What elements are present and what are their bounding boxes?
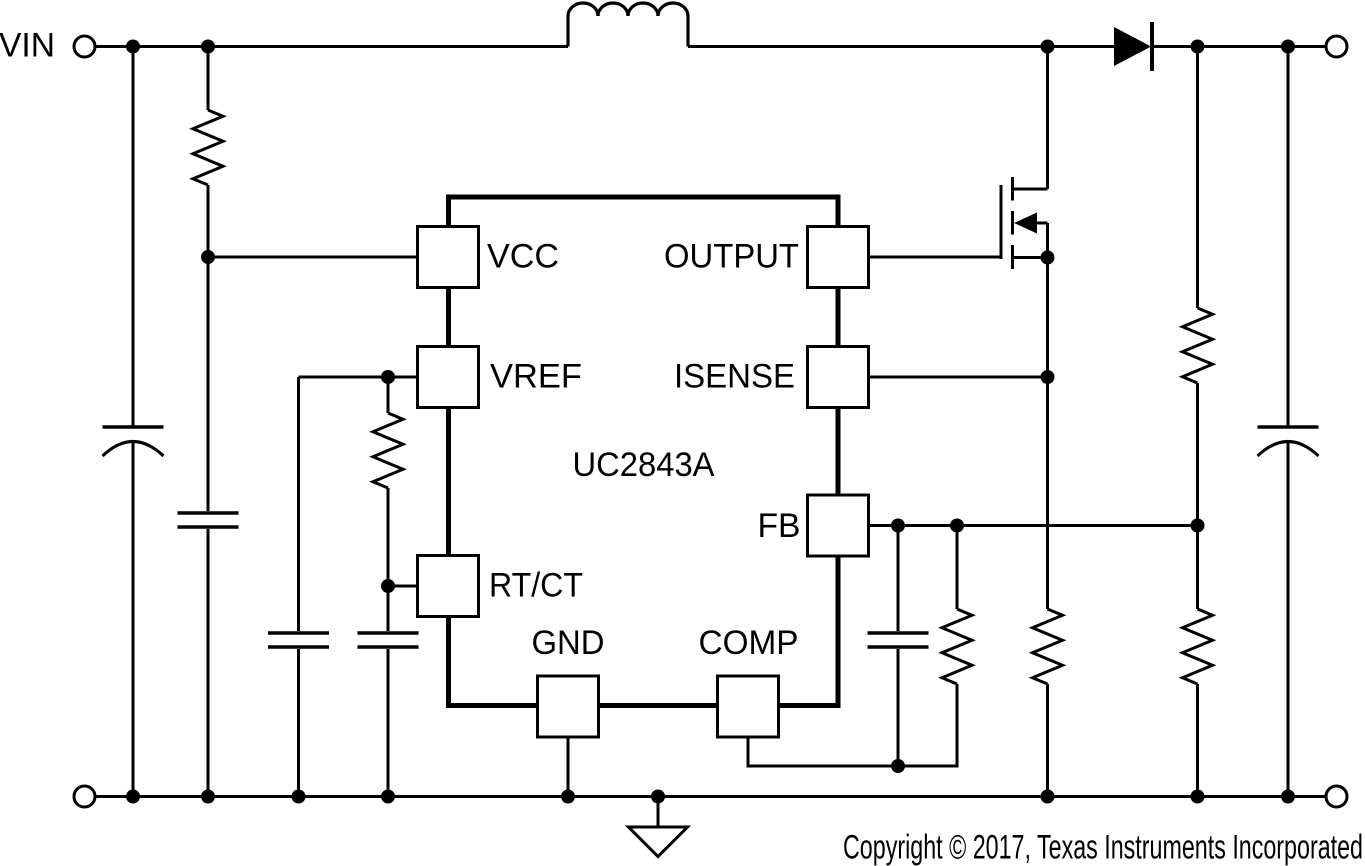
wire drain to top rail — [1046, 47, 1049, 190]
node dot FB divider — [1191, 519, 1205, 533]
transistor Q1 (N-MOSFET) — [1001, 177, 1048, 269]
pin box COMP — [718, 676, 779, 737]
svg-text:VCC: VCC — [487, 238, 559, 276]
pin box OUTPUT — [808, 227, 869, 288]
svg-text:OUTPUT: OUTPUT — [664, 238, 799, 276]
ground — [629, 790, 688, 857]
terminal VOUT — [1326, 36, 1347, 57]
wire source down to sense resistor — [1046, 258, 1049, 610]
capacitor comp — [868, 633, 929, 647]
node dot top rail drain — [1041, 40, 1055, 54]
wire FB to comp resistor — [956, 526, 959, 610]
node dot comp junction — [891, 759, 905, 773]
resistor sense — [1033, 609, 1063, 684]
wire VCC pin — [208, 256, 418, 259]
node dot VCC — [201, 250, 215, 264]
node dot rail x133 — [126, 790, 140, 804]
inductor L1 — [568, 3, 688, 47]
wire CT cap to ground rail — [387, 649, 390, 797]
wire FB node to lower divider resistor — [1196, 526, 1199, 610]
svg-text:COMP: COMP — [699, 624, 799, 662]
capacitor CIN (polarized) — [103, 427, 164, 456]
wire RT/CT node down to CT cap — [387, 586, 390, 631]
node dot source — [1041, 251, 1055, 265]
node dot rail x388 — [381, 790, 395, 804]
wire input cap bottom — [132, 442, 135, 797]
svg-text:UC2843A: UC2843A — [573, 446, 715, 484]
capacitor VCC bypass — [178, 513, 239, 527]
node dot RT/CT — [381, 579, 395, 593]
node dot rail x208 — [201, 790, 215, 804]
wire VREF pin — [299, 376, 418, 379]
wire upper divider to FB node — [1196, 383, 1199, 526]
wire bottom rail — [95, 795, 1326, 798]
capacitor COUT (polarized) — [1258, 427, 1319, 456]
wire top rail to upper divider resistor — [1196, 47, 1199, 309]
pin box FB — [808, 495, 869, 556]
diode D1 — [1114, 22, 1152, 71]
resistor divider upper — [1183, 308, 1213, 383]
pin box ISENSE — [808, 347, 869, 408]
wire VREF to RT resistor — [387, 377, 390, 413]
svg-text:VIN: VIN — [0, 27, 55, 65]
terminal VIN — [74, 36, 95, 57]
resistor divider lower — [1183, 609, 1213, 684]
wire resistor to VCC node — [207, 185, 210, 257]
node dot output cap rail — [1281, 790, 1295, 804]
wire FB to comp cap — [897, 526, 900, 632]
svg-text:ISENSE: ISENSE — [674, 358, 795, 396]
pin box VREF — [418, 347, 479, 408]
wire RT/CT pin — [388, 585, 418, 588]
svg-text:Copyright © 2017, Texas Instru: Copyright © 2017, Texas Instruments Inco… — [843, 829, 1363, 866]
wire VIN rail to bias resistor — [207, 47, 210, 111]
wire ISENSE pin — [869, 376, 1048, 379]
wire comp cap to comp junction — [897, 649, 900, 766]
resistor comp — [942, 609, 972, 684]
node dot top rail x208 — [201, 40, 215, 54]
wire lower divider to ground rail — [1196, 684, 1199, 797]
wire top rail inductor to diode — [688, 45, 1114, 48]
node dot top rail x133 — [126, 40, 140, 54]
svg-text:GND: GND — [532, 624, 605, 662]
wire output cap bottom — [1287, 442, 1290, 797]
pin box GND — [538, 676, 599, 737]
resistor R bias — [193, 110, 223, 185]
node dot divider rail — [1191, 790, 1205, 804]
terminal bottom-left — [74, 786, 95, 807]
node dot GND rail — [561, 790, 575, 804]
resistor RT — [373, 413, 403, 488]
node dot VREF — [381, 370, 395, 384]
node dot top rail output cap — [1281, 40, 1295, 54]
node dot rail x298 — [292, 790, 306, 804]
pin box RT/CT — [418, 556, 479, 617]
wire top rail diode to output terminal — [1152, 45, 1326, 48]
node dot FB cap — [891, 519, 905, 533]
svg-text:RT/CT: RT/CT — [489, 567, 583, 605]
wire FB pin — [869, 524, 1198, 527]
wire bypass cap to ground rail — [207, 529, 210, 797]
wire sense resistor to ground rail — [1046, 684, 1049, 797]
svg-text:FB: FB — [758, 507, 801, 545]
wire COMP pin to compensation network — [748, 684, 957, 766]
node dot ISENSE — [1041, 370, 1055, 384]
IC U1 UC2843A outline — [449, 197, 839, 706]
capacitor CT — [358, 633, 419, 647]
terminal bottom-right — [1326, 786, 1347, 807]
wire OUTPUT pin to gate — [869, 256, 1002, 259]
node dot top rail divider — [1191, 40, 1205, 54]
node dot FB resistor — [950, 519, 964, 533]
node dot sense rail — [1041, 790, 1055, 804]
svg-text:VREF: VREF — [490, 358, 582, 396]
wire GND pin to ground rail — [567, 737, 570, 797]
wire VCC node down to bypass cap — [207, 257, 210, 511]
pin box VCC — [418, 227, 479, 288]
wire output cap top — [1287, 47, 1290, 426]
wire input cap top — [132, 47, 135, 426]
wire VREF cap to ground rail — [297, 649, 300, 797]
wire VREF branch down — [297, 377, 300, 631]
wire RT resistor to RT/CT node — [387, 488, 390, 586]
wire top rail VIN to inductor — [95, 45, 568, 48]
capacitor VREF bypass — [268, 633, 329, 647]
